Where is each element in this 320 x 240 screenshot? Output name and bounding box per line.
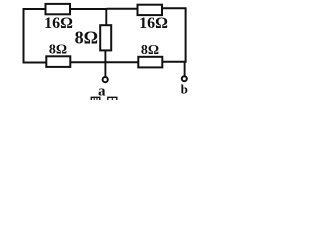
wire: top rail, R1 to middle junction <box>70 8 106 10</box>
wire: bottom rail, R4 to center junction <box>70 61 105 63</box>
wire: top rail, middle junction to R2 <box>106 8 137 10</box>
wire: bottom rail, R5 to right branch <box>162 61 186 63</box>
wire: top rail, left corner to R1 <box>23 8 46 10</box>
wire: bottom rail, center junction to R5 <box>105 61 138 63</box>
caption fragment (clipped Chinese character top), right <box>108 97 117 105</box>
svg-text:b: b <box>181 82 188 97</box>
resistor R4 8Ω (bottom left) <box>46 56 70 67</box>
resistor R1 16Ω (top left) <box>46 4 71 14</box>
wire: R3 bottom stub through bottom rail to terminal a <box>104 50 106 77</box>
svg-text:8Ω: 8Ω <box>49 43 67 58</box>
resistor R2 16Ω (top right) <box>138 5 163 15</box>
terminal b <box>182 76 187 81</box>
resistor R5 8Ω (bottom right) <box>138 57 162 68</box>
terminal a <box>103 77 108 82</box>
svg-text:8Ω: 8Ω <box>75 28 98 48</box>
wire: right branch vertical <box>185 8 187 63</box>
svg-text:8Ω: 8Ω <box>141 43 159 58</box>
svg-text:16Ω: 16Ω <box>139 15 168 32</box>
wire: left branch vertical <box>23 8 25 63</box>
resistor R3 8Ω (middle vertical) <box>100 25 111 50</box>
wire: top rail, R2 to top-right corner <box>162 7 186 9</box>
svg-text:16Ω: 16Ω <box>44 15 73 32</box>
wire: bottom rail, left corner to R4 <box>23 62 47 64</box>
caption fragment (clipped Chinese character top), left <box>91 97 100 105</box>
wire: R3 top stub <box>105 8 107 26</box>
wire: stub to terminal b <box>184 62 186 76</box>
